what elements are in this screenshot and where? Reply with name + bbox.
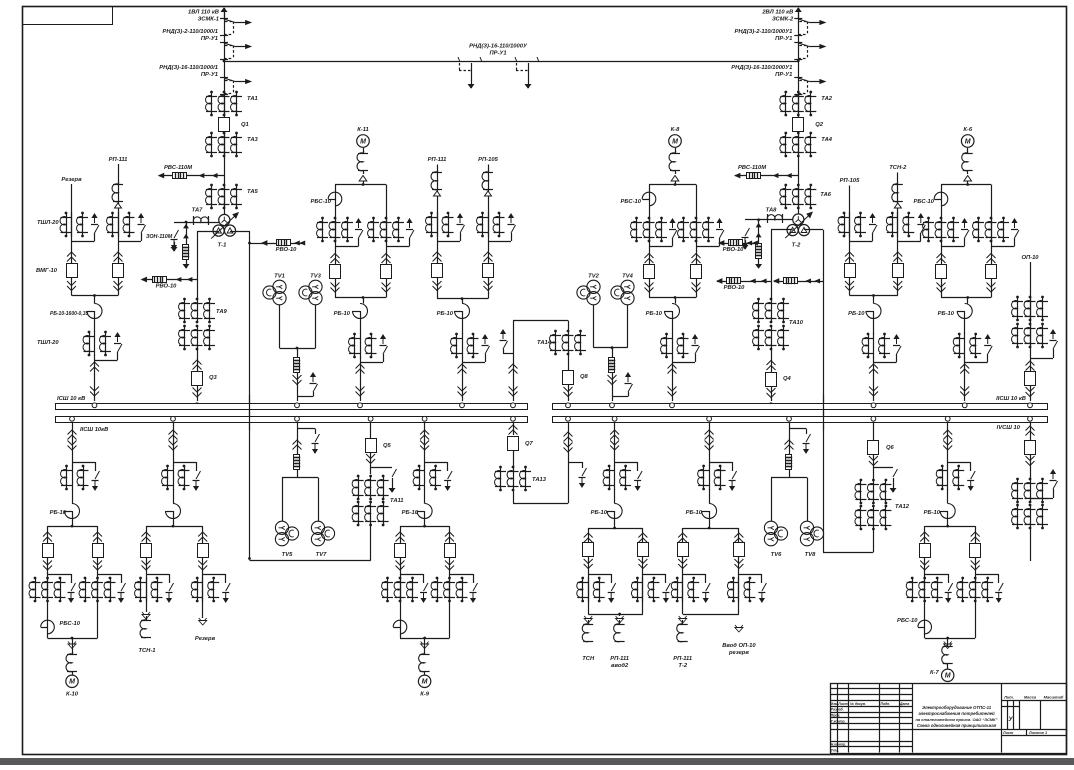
- wire К-10 from bus: [72, 423, 74, 466]
- wire to motor К-10: [68, 642, 76, 647]
- node feeder РП-111|Т-2 tap on bus II: [707, 416, 712, 421]
- wire TV6 TV8 split: [789, 470, 791, 478]
- current transformer far-right double row: [1016, 478, 1019, 481]
- svg-text:РП-111: РП-111: [673, 656, 692, 662]
- svg-text:ПР-У1: ПР-У1: [775, 72, 792, 78]
- svg-text:Масса: Масса: [1024, 695, 1037, 700]
- wire to Q8: [568, 354, 570, 370]
- svg-text:ПР-У1: ПР-У1: [489, 51, 506, 57]
- svg-text:ТСН-1: ТСН-1: [138, 648, 155, 654]
- current transformer TA6: [784, 184, 787, 187]
- wire Q8 coupler top: [513, 320, 568, 322]
- node РП-105 feeder tap on bus: [871, 403, 876, 408]
- svg-text:РП-111: РП-111: [610, 656, 629, 662]
- wire RP-111 cable: [118, 164, 120, 296]
- wire feeder РП-111|Т-2 from bus: [709, 423, 711, 466]
- current transformers left branch К-9: [386, 577, 389, 580]
- current transformer pair of РП-111 feeder: [462, 333, 464, 358]
- svg-text:ТА8: ТА8: [766, 208, 778, 214]
- current transformers left branch К-6: [927, 217, 930, 220]
- breaker left branch К-7: [920, 532, 929, 537]
- svg-text:РБ-10: РБ-10: [50, 510, 67, 516]
- wire join of Rezerv and RP-111: [72, 295, 119, 297]
- busbar section right top: [553, 404, 1048, 410]
- node Q3 tap on bus I: [195, 403, 200, 408]
- surge arrester RVS-110M right: [735, 175, 798, 177]
- earthing switch OP-10: [1051, 330, 1055, 339]
- reactor RB-10 of РП-111/РП-105: [455, 304, 470, 319]
- wire К-6 to bus: [964, 357, 966, 401]
- motor К-10: [66, 675, 78, 687]
- surge arrester RVS-110M left: [159, 175, 224, 177]
- wire loop К-6: [941, 184, 991, 186]
- current transformer pair TCH-1 feeder: [173, 465, 175, 490]
- current transformer pair РП-105: [849, 212, 851, 237]
- svg-text:ЗОН-110М: ЗОН-110М: [146, 234, 173, 240]
- svg-text:М: М: [672, 138, 678, 145]
- wire Q3 to bus: [197, 386, 199, 402]
- svg-text:РБС-10: РБС-10: [914, 199, 935, 205]
- node Q8 left tap bus I left: [511, 403, 516, 408]
- svg-text:РБ-10: РБ-10: [848, 311, 865, 317]
- breaker VMG-10 on Rezerv branch: [67, 252, 76, 257]
- surge arrester RVO-10 at T-1 right: [262, 243, 305, 245]
- svg-text:Q6: Q6: [886, 445, 895, 451]
- breaker Q5: [370, 423, 372, 438]
- svg-text:Листов 1: Листов 1: [1028, 731, 1047, 735]
- wire loop К-8: [649, 184, 696, 186]
- breaker right branch К-8: [692, 254, 701, 259]
- svg-text:ТV1: ТV1: [274, 274, 285, 280]
- svg-text:Т-2: Т-2: [678, 663, 687, 669]
- breaker Q7: [508, 437, 519, 451]
- ground switch contact at T-2 neutral: [745, 228, 750, 236]
- breaker Q6: [873, 423, 875, 440]
- wire Q8 coupler left leg: [513, 321, 515, 402]
- title block lit subcolumns: [1007, 700, 1009, 729]
- svg-text:РВО-10: РВО-10: [723, 247, 745, 253]
- breaker right branch К-7: [971, 532, 980, 537]
- breaker РП-105: [845, 252, 854, 257]
- current transformer pair on Rezerv: [71, 212, 73, 237]
- wire loop К-10: [48, 526, 98, 528]
- disconnector PR-U1 upper right: [794, 18, 802, 20]
- voltage transformer TV2: [587, 280, 600, 293]
- voltage transformer TV4: [621, 280, 634, 293]
- svg-text:К-10: К-10: [66, 692, 79, 698]
- current transformers left branch К-7: [911, 577, 914, 580]
- breaker TCH-1 branch: [142, 532, 151, 537]
- node Q5 tap on bus II left: [368, 416, 373, 421]
- breaker left branch К-10: [43, 532, 52, 537]
- svg-text:2ВЛ 110 кВ: 2ВЛ 110 кВ: [761, 10, 793, 16]
- title block massa masshtab columns: [1040, 700, 1042, 729]
- breaker ТСН-2: [893, 252, 902, 257]
- breaker Q8: [563, 371, 574, 385]
- svg-text:ТШЛ-20: ТШЛ-20: [37, 220, 59, 226]
- wire join РП-111/РП-105: [437, 298, 488, 300]
- dual reactor RBS-10 К-7: [918, 620, 932, 634]
- reactor RB-10 TCH-1 feeder: [173, 489, 175, 504]
- svg-text:Масштаб: Масштаб: [1044, 695, 1064, 700]
- voltage transformer TV5: [275, 521, 288, 534]
- reactor RB-10 feeder РП-111|Т-2: [709, 489, 711, 504]
- transformer winding РП-111|Т-2: [679, 616, 687, 621]
- wire РП-105 cable: [849, 186, 851, 296]
- disconnector PR-U1 second: [220, 42, 228, 44]
- fuse TV5 feeder: [294, 455, 300, 470]
- svg-text:Q4: Q4: [783, 376, 792, 382]
- breaker left branch К-6: [937, 254, 946, 259]
- svg-text:ТА11: ТА11: [390, 498, 404, 504]
- current transformer pair ТСН-2: [897, 212, 899, 237]
- svg-text:ЗСМК-1: ЗСМК-1: [198, 17, 219, 23]
- svg-text:РП-105: РП-105: [840, 178, 860, 184]
- svg-text:РБ-10-1600-0,35: РБ-10-1600-0,35: [50, 311, 89, 317]
- surge arrester RVO-10 at T-2 left branch: [717, 281, 771, 283]
- breaker of OP-10 feeder: [1026, 361, 1035, 366]
- wire T-2 neutral horizontal: [745, 219, 793, 221]
- wire TV feeder to bus: [297, 372, 299, 401]
- breaker right branch К-11: [382, 254, 391, 259]
- svg-text:М: М: [422, 679, 428, 686]
- current transformer OP-10 double row: [1016, 296, 1019, 299]
- node TCH-1 feeder tap on bus II: [171, 416, 176, 421]
- svg-text:ТСН: ТСН: [582, 656, 595, 662]
- breaker left branch К-8: [645, 254, 654, 259]
- breaker branch Ввод ОП-10|резерв: [734, 533, 743, 538]
- earthing switch at TV2 feeder: [626, 373, 630, 382]
- svg-text:РБ-10: РБ-10: [646, 311, 663, 317]
- node TV1 tap on bus I: [295, 403, 300, 408]
- winding coil К-8: [675, 148, 677, 153]
- wire TCH-1 feeder from bus: [173, 423, 175, 466]
- svg-text:ТШЛ-20: ТШЛ-20: [37, 340, 59, 346]
- current transformers right branch К-8: [682, 217, 685, 220]
- wire Q4 cable link upper: [771, 349, 773, 372]
- earthing switch at TV feeder: [311, 373, 315, 382]
- svg-text:РВО-10: РВО-10: [276, 247, 298, 253]
- svg-text:ТV6: ТV6: [771, 552, 782, 558]
- svg-text:Разраб.: Разраб.: [831, 708, 844, 712]
- wire incoming line 2 with arrow: [798, 8, 800, 18]
- svg-text:ТА1: ТА1: [247, 96, 258, 102]
- svg-text:Резерв: Резерв: [61, 177, 82, 183]
- voltage transformer TV8: [800, 521, 813, 534]
- node TV6 feeder tap on bus II right: [787, 416, 792, 421]
- svg-text:РВС-110М: РВС-110М: [738, 165, 766, 171]
- cable head coil РП-111: [431, 172, 437, 190]
- svg-text:Схема однолинейная принципиаль: Схема однолинейная принципиальная: [917, 723, 997, 728]
- cable head coil RP-111: [112, 184, 118, 202]
- svg-text:К-8: К-8: [671, 127, 680, 133]
- current transformer pair РП-111: [437, 212, 439, 237]
- current transformer TA10 double row: [757, 298, 760, 301]
- node feeder ТСН tap on bus II: [612, 416, 617, 421]
- fuse of TV2 feeder: [609, 358, 615, 373]
- wire К-9 from bus: [424, 423, 426, 466]
- dual reactor RBS-10 of К-8: [642, 192, 656, 206]
- svg-text:Лист: Лист: [1002, 731, 1014, 735]
- node К-6 tap on bus: [962, 403, 967, 408]
- wire feeder ТСН from bus: [614, 423, 616, 466]
- node far-right feeder tap on bus II: [1028, 416, 1033, 421]
- wire РП-105 cable: [488, 165, 490, 299]
- reactor RB-10 of К-11: [363, 298, 365, 304]
- busbar I section 10kV left: [56, 404, 528, 410]
- svg-text:РБ-10: РБ-10: [938, 311, 955, 317]
- wire К-11 to bus: [360, 357, 362, 401]
- surge arrester RVO-10 at T-1 left: [142, 279, 197, 281]
- current transformers left branch К-8: [635, 217, 638, 220]
- current transformer TA1: [210, 91, 213, 94]
- svg-text:ТА7: ТА7: [192, 208, 204, 214]
- wire feeder A to bus: [94, 355, 96, 401]
- node К-7 tap on bus II: [945, 416, 950, 421]
- current transformer pair of К-11: [360, 333, 362, 358]
- current transformer pair feeder РП-111|Т-2: [709, 465, 711, 490]
- dual reactor RBS-10 К-9: [393, 620, 407, 634]
- reactor RB-10 К-10: [72, 489, 74, 504]
- wire Rezerv cable: [71, 184, 73, 296]
- current transformers right branch К-7: [961, 577, 964, 580]
- current transformer TA11 double row: [357, 475, 360, 478]
- busbar II section 10kV left: [56, 417, 528, 423]
- wire TCH-1 loop: [146, 526, 203, 528]
- breaker left branch К-11: [331, 254, 340, 259]
- svg-text:РП-105: РП-105: [478, 157, 498, 163]
- reactor RB-10 of К-6: [967, 298, 969, 304]
- svg-text:IIСШ 10кВ: IIСШ 10кВ: [80, 427, 108, 433]
- reactor RB-10 К-9: [424, 489, 426, 504]
- svg-text:ТV7: ТV7: [316, 552, 327, 558]
- current transformer pair TCH-1 branch: [146, 577, 148, 602]
- reactor RB-10 feeder ТСН: [614, 489, 616, 504]
- current transformer pair branch РП-111|Т-2: [682, 577, 684, 602]
- current transformer pair Rezerv branch: [202, 577, 204, 602]
- svg-text:IVСШ 10: IVСШ 10: [997, 425, 1021, 431]
- svg-text:ТА2: ТА2: [821, 96, 833, 102]
- svg-text:№ докум.: № докум.: [850, 702, 866, 706]
- node TV2 tap on bus: [610, 403, 615, 408]
- title block frame: [831, 684, 1067, 754]
- current transformer pair К-10: [72, 465, 74, 490]
- transformer T-1 three-winding: [219, 214, 230, 225]
- svg-text:Q5: Q5: [383, 443, 392, 449]
- current transformer TA12 double row: [860, 479, 863, 482]
- current transformers right branch К-9: [436, 577, 439, 580]
- title block list row: [1001, 729, 1066, 731]
- earthing switch on Q5 leg: [371, 467, 392, 469]
- breaker Rezerv branch: [198, 532, 207, 537]
- node Q7 tap bus II left: [511, 416, 516, 421]
- wire T-2 reserve branch crossing buses: [823, 395, 825, 430]
- svg-text:РБС-10: РБС-10: [897, 618, 918, 624]
- breaker branch РП-111|Т-2: [678, 533, 687, 538]
- transformer T-2 three-winding: [793, 214, 804, 225]
- current transformer pair РП-105: [488, 212, 490, 237]
- title block left table rows: [830, 688, 913, 690]
- current transformer pair of К-6: [964, 333, 966, 358]
- svg-text:Изм Лист: Изм Лист: [831, 702, 848, 706]
- wire branch bottoms РП-111|Т-2: [683, 614, 739, 616]
- current transformer TA2: [784, 91, 787, 94]
- svg-text:РБС-10: РБС-10: [311, 199, 332, 205]
- svg-text:Q7: Q7: [525, 441, 534, 447]
- wire Q3 cable link upper: [197, 349, 199, 371]
- svg-text:РНД(З)-16-110/1000/1: РНД(З)-16-110/1000/1: [159, 65, 218, 71]
- disconnector tie right: [515, 57, 517, 62]
- svg-text:М: М: [360, 138, 366, 145]
- svg-text:Ввод ОП-10: Ввод ОП-10: [722, 643, 756, 649]
- breaker Q2: [793, 118, 804, 132]
- svg-text:РБС-10: РБС-10: [60, 621, 81, 627]
- node feeder A tap on bus I: [92, 403, 97, 408]
- current transformers left branch К-10: [34, 577, 37, 580]
- node К-9 tap on bus II: [422, 416, 427, 421]
- wire 110kV tie line: [224, 61, 798, 63]
- svg-text:Резерв: Резерв: [195, 636, 216, 642]
- voltage transformer TV7: [311, 521, 324, 534]
- voltage transformer TV1: [273, 280, 286, 293]
- wire Q4 to bus: [771, 386, 773, 401]
- svg-text:РВО-10: РВО-10: [156, 284, 178, 290]
- breaker far-right feeder: [1030, 423, 1032, 440]
- svg-text:РБ-10: РБ-10: [686, 510, 703, 516]
- disconnector PR-U1 lower right: [794, 77, 802, 79]
- svg-text:ТА4: ТА4: [821, 137, 833, 143]
- svg-text:ПР-У1: ПР-У1: [201, 72, 218, 78]
- current transformer pair branch Ввод ОП-10|резерв: [738, 577, 740, 602]
- svg-text:ТV5: ТV5: [282, 552, 293, 558]
- svg-text:ТV2: ТV2: [588, 274, 599, 280]
- earthing switch far-right feeder: [1051, 470, 1055, 479]
- current transformer pair of К-8: [672, 333, 674, 358]
- cable head coil ТСН-2: [892, 184, 898, 202]
- svg-text:IСШ 10 кВ: IСШ 10 кВ: [57, 396, 85, 402]
- current transformer pair branch ТСН: [588, 577, 590, 602]
- wire Q7 loop bottom: [513, 490, 515, 503]
- breaker РП-111: [433, 252, 442, 257]
- title block left table verticals: [837, 683, 839, 753]
- wire Q8 to bus: [568, 384, 570, 401]
- breaker Q1: [219, 118, 230, 132]
- svg-text:ТV4: ТV4: [622, 274, 633, 280]
- reactor RB-10 of К-8: [675, 298, 677, 304]
- svg-text:резерв: резерв: [728, 650, 749, 656]
- svg-text:РБ-10: РБ-10: [924, 510, 941, 516]
- wire far-right feeder end: [1030, 528, 1032, 561]
- wire to motor К-9: [421, 642, 429, 647]
- wire T-1 reserve branch crossing buses: [249, 395, 251, 430]
- svg-text:ТА5: ТА5: [247, 189, 259, 195]
- svg-text:Утв.: Утв.: [831, 748, 839, 752]
- node К-10 tap on bus II: [70, 416, 75, 421]
- ground switch contact at T-1 neutral: [174, 230, 179, 238]
- bottom gray bar: [0, 758, 1074, 765]
- dual reactor RBS-10 of К-11: [328, 192, 342, 206]
- svg-text:К-9: К-9: [420, 692, 429, 698]
- svg-text:РБ-10: РБ-10: [402, 510, 419, 516]
- svg-text:электроснабжения потребителей: электроснабжения потребителей: [918, 711, 995, 716]
- svg-text:ТV3: ТV3: [310, 274, 321, 280]
- svg-text:К-6: К-6: [963, 127, 972, 133]
- svg-text:ТА6: ТА6: [820, 192, 832, 198]
- earthing switch Q7 right leg: [568, 462, 582, 464]
- svg-text:РНД(З)-16-110/1000У1: РНД(З)-16-110/1000У1: [731, 65, 792, 71]
- svg-text:ТА9: ТА9: [216, 309, 228, 315]
- wire split ТСН/: [588, 528, 643, 530]
- svg-text:РП-111: РП-111: [428, 157, 447, 163]
- wire TV5 feeder: [297, 423, 299, 455]
- disconnector tie left: [458, 57, 460, 62]
- wire Q6 loop to T-2 reserve branch: [873, 529, 875, 552]
- current transformer pair К-9: [424, 465, 426, 490]
- surge arrester RVO-10 at T-2 far-left: [719, 243, 758, 245]
- svg-text:Т-1: Т-1: [218, 243, 227, 249]
- svg-text:ТА3: ТА3: [247, 137, 259, 143]
- svg-text:РВС-110М: РВС-110М: [164, 165, 192, 171]
- svg-text:РНД(З)-16-110/1000У: РНД(З)-16-110/1000У: [469, 44, 528, 50]
- breaker right branch К-10: [93, 532, 102, 537]
- title block center divider: [1001, 683, 1003, 753]
- grounding reactor ZON at T-2: [758, 220, 760, 243]
- wire РП-105 feeder to bus: [873, 357, 875, 401]
- breaker Q4: [766, 373, 777, 387]
- wire T-1 neutral horizontal: [174, 222, 219, 224]
- current transformers left branch К-11: [321, 217, 324, 220]
- svg-text:М: М: [945, 673, 951, 680]
- current transformer TA5: [210, 184, 213, 187]
- wire T-1 secondary loop: [197, 231, 219, 233]
- breaker branch: [638, 533, 647, 538]
- dual reactor RBS-10 of К-6: [934, 192, 948, 206]
- svg-text:М: М: [965, 138, 971, 145]
- svg-text:Пров.: Пров.: [831, 714, 841, 718]
- node РП-111 feeder tap on bus: [460, 403, 465, 408]
- cable head coil РП-105: [482, 172, 488, 190]
- motor К-6: [961, 135, 974, 148]
- svg-text:Q2: Q2: [815, 122, 824, 128]
- svg-text:ТСН-2: ТСН-2: [889, 165, 907, 171]
- svg-text:ПР-У1: ПР-У1: [201, 36, 218, 42]
- disconnector PR-U1 lower: [220, 77, 228, 79]
- svg-text:РНД(З)-2-110/1000У1: РНД(З)-2-110/1000У1: [734, 29, 792, 35]
- current transformer pair of РП-105 feeder: [873, 333, 875, 358]
- svg-text:РБ-10: РБ-10: [591, 510, 608, 516]
- svg-text:К-7: К-7: [930, 670, 939, 676]
- node Q8 tap bus right: [566, 403, 571, 408]
- transformer winding РП-111|ввод2: [619, 614, 621, 616]
- svg-text:ТV8: ТV8: [805, 552, 816, 558]
- voltage transformer TV6: [764, 521, 777, 534]
- wire К-8 to bus: [672, 357, 674, 401]
- wire TV6 feeder: [789, 423, 791, 455]
- wire TV5 TV7 split: [297, 470, 299, 478]
- node Q7 right tap bus II right: [566, 416, 571, 421]
- reactor RB-10 of РП-105/ТСН-2: [866, 304, 881, 319]
- cable Rezerv end: [199, 618, 207, 623]
- wire loop К-7: [925, 526, 976, 528]
- svg-text:Q8: Q8: [580, 374, 589, 380]
- wire to motor К-7: [944, 642, 952, 647]
- wire OP-10 feeder: [1030, 262, 1032, 371]
- svg-text:ТА13: ТА13: [532, 477, 547, 483]
- svg-text:РБ-10: РБ-10: [334, 311, 351, 317]
- motor К-7: [942, 669, 954, 681]
- svg-text:Т-2: Т-2: [792, 243, 801, 249]
- wire split РП-111|Т-2/Ввод ОП-10|резерв: [683, 528, 739, 530]
